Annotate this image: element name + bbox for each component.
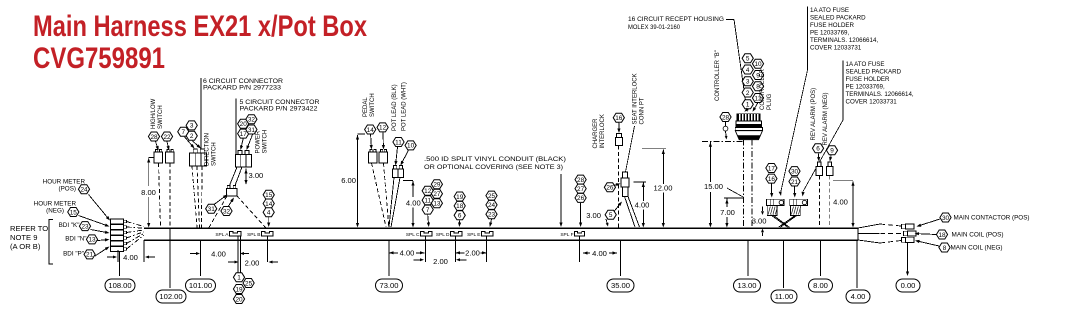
svg-text:HIGH/LOW: HIGH/LOW (151, 98, 157, 129)
svg-text:SPL F: SPL F (560, 232, 573, 238)
svg-text:BDI "N": BDI "N" (65, 236, 86, 243)
svg-text:SWITCH: SWITCH (263, 130, 269, 154)
svg-text:4: 4 (267, 210, 271, 217)
svg-text:4.00: 4.00 (851, 292, 866, 301)
svg-text:4.00: 4.00 (400, 248, 415, 257)
svg-text:PLUG: PLUG (767, 93, 773, 110)
svg-text:11: 11 (424, 198, 431, 205)
svg-text:.500 ID SPLIT VINYL CONDUIT (B: .500 ID SPLIT VINYL CONDUIT (BLACK) (424, 156, 566, 163)
svg-text:8: 8 (943, 245, 947, 252)
svg-text:14: 14 (367, 127, 375, 134)
svg-text:MAIN COIL (NEG): MAIN COIL (NEG) (951, 245, 1003, 252)
svg-text:73.00: 73.00 (379, 281, 398, 290)
svg-text:Main Harness EX21 x/Pot Box: Main Harness EX21 x/Pot Box (33, 10, 367, 43)
svg-text:23: 23 (488, 212, 496, 219)
svg-text:15: 15 (265, 192, 273, 199)
svg-text:CONTROLLER: CONTROLLER (760, 68, 766, 110)
svg-text:108.00: 108.00 (108, 281, 131, 290)
svg-text:TERMINALS. 12066614,: TERMINALS. 12066614, (846, 91, 914, 98)
svg-text:MOLEX 39-01-2160: MOLEX 39-01-2160 (628, 24, 680, 31)
svg-text:10: 10 (754, 61, 762, 68)
svg-text:19: 19 (235, 286, 243, 293)
svg-text:12.00: 12.00 (653, 183, 672, 192)
svg-text:27: 27 (577, 186, 585, 193)
svg-text:PE 12033769,: PE 12033769, (810, 30, 850, 37)
svg-text:7: 7 (182, 129, 186, 136)
svg-text:10: 10 (407, 143, 415, 150)
svg-text:22: 22 (163, 134, 171, 141)
svg-text:6: 6 (458, 213, 462, 220)
svg-text:SWITCH: SWITCH (158, 105, 164, 129)
svg-text:4.00: 4.00 (211, 250, 226, 259)
svg-text:18: 18 (456, 203, 464, 210)
svg-text:(NEG): (NEG) (46, 207, 64, 214)
svg-text:18: 18 (938, 232, 946, 239)
svg-text:NOTE 9: NOTE 9 (10, 233, 37, 242)
svg-text:POT LEAD (WHT): POT LEAD (WHT) (402, 82, 408, 131)
svg-text:COVER 12033731: COVER 12033731 (810, 45, 862, 52)
svg-text:5: 5 (746, 56, 750, 63)
svg-text:CONN PT: CONN PT (640, 97, 646, 124)
svg-text:FUSE HOLDER: FUSE HOLDER (846, 76, 891, 83)
svg-text:1: 1 (746, 102, 750, 109)
svg-text:SWITCH: SWITCH (370, 93, 376, 117)
svg-text:0.00: 0.00 (901, 281, 916, 290)
svg-text:BDI "P": BDI "P" (63, 251, 84, 258)
svg-text:13: 13 (88, 237, 96, 244)
svg-text:11.00: 11.00 (775, 292, 793, 301)
svg-text:2: 2 (746, 90, 750, 97)
svg-text:5: 5 (609, 212, 613, 219)
svg-text:25: 25 (245, 280, 253, 287)
svg-text:11: 11 (395, 139, 402, 146)
svg-text:CHARGER: CHARGER (593, 118, 599, 149)
svg-text:SPL B: SPL B (247, 232, 260, 238)
svg-text:7: 7 (426, 207, 430, 214)
svg-text:9: 9 (830, 148, 834, 155)
svg-text:1A ATO FUSE: 1A ATO FUSE (846, 61, 885, 68)
svg-text:1A ATO FUSE: 1A ATO FUSE (810, 7, 849, 14)
svg-text:PACKARD P/N 2973422: PACKARD P/N 2973422 (240, 106, 319, 113)
svg-text:(A OR B): (A OR B) (10, 242, 41, 251)
svg-text:17: 17 (768, 165, 776, 172)
svg-text:PE 12033769,: PE 12033769, (846, 84, 886, 91)
svg-text:SWITCH: SWITCH (212, 142, 218, 166)
svg-text:4: 4 (746, 67, 750, 74)
svg-text:12: 12 (379, 125, 387, 132)
svg-text:7.00: 7.00 (720, 208, 735, 217)
svg-text:8.00: 8.00 (813, 281, 828, 290)
svg-text:2: 2 (190, 133, 194, 140)
svg-text:15.00: 15.00 (704, 182, 723, 191)
svg-text:8.00: 8.00 (141, 188, 156, 197)
svg-text:23: 23 (81, 223, 89, 230)
svg-text:REFER TO: REFER TO (10, 224, 48, 233)
svg-text:OR OPTIONAL COVERING (SEE NOTE: OR OPTIONAL COVERING (SEE NOTE 3) (424, 164, 563, 171)
svg-text:30: 30 (942, 215, 950, 222)
svg-text:CVG759891: CVG759891 (33, 42, 165, 75)
svg-text:POT LEAD (BLK): POT LEAD (BLK) (392, 84, 398, 131)
svg-text:3.00: 3.00 (586, 211, 601, 220)
svg-text:24: 24 (488, 202, 496, 209)
svg-text:24: 24 (80, 187, 88, 194)
svg-text:31: 31 (208, 206, 216, 213)
svg-text:SPL C: SPL C (406, 232, 420, 238)
svg-text:HOUR METER: HOUR METER (43, 179, 86, 186)
svg-text:CONTROLLER "B": CONTROLLER "B" (715, 50, 721, 101)
svg-text:MAIN CONTACTOR (POS): MAIN CONTACTOR (POS) (954, 215, 1030, 222)
svg-text:12: 12 (424, 188, 432, 195)
svg-text:SEALED PACKARD: SEALED PACKARD (846, 69, 902, 76)
svg-text:16: 16 (615, 115, 623, 122)
svg-text:1: 1 (237, 275, 241, 282)
svg-text:6.00: 6.00 (341, 176, 356, 185)
svg-text:25: 25 (488, 193, 496, 200)
svg-text:SPL A: SPL A (215, 232, 229, 238)
svg-text:19: 19 (456, 194, 464, 201)
svg-text:14: 14 (265, 201, 273, 208)
svg-text:SPL D: SPL D (436, 232, 450, 238)
svg-text:BDI "K": BDI "K" (59, 222, 80, 229)
svg-text:PEDAL: PEDAL (363, 97, 369, 117)
svg-text:PACKARD P/N 2977233: PACKARD P/N 2977233 (203, 85, 282, 92)
svg-text:4.00: 4.00 (592, 249, 607, 258)
svg-text:FUSE HOLDER: FUSE HOLDER (810, 22, 855, 29)
svg-text:2.00: 2.00 (433, 257, 448, 266)
svg-text:REV ALARM (POS): REV ALARM (POS) (811, 88, 817, 141)
svg-text:32: 32 (223, 208, 231, 215)
svg-text:30: 30 (791, 168, 799, 175)
svg-text:(POS): (POS) (59, 186, 77, 193)
svg-text:35.00: 35.00 (611, 281, 630, 290)
svg-text:15: 15 (70, 209, 78, 216)
svg-text:32: 32 (248, 117, 256, 124)
svg-text:13: 13 (433, 201, 441, 208)
svg-text:26: 26 (577, 195, 585, 202)
svg-text:17: 17 (240, 131, 248, 138)
svg-text:20: 20 (240, 121, 248, 128)
svg-text:4.00: 4.00 (635, 201, 650, 210)
svg-text:POWER: POWER (256, 130, 262, 153)
svg-text:SPL E: SPL E (467, 232, 480, 238)
svg-text:101.00: 101.00 (189, 281, 212, 290)
svg-text:21: 21 (791, 179, 799, 186)
svg-text:13.00: 13.00 (737, 281, 756, 290)
svg-text:4.00: 4.00 (833, 198, 848, 207)
svg-text:20: 20 (235, 296, 243, 303)
svg-text:4.00: 4.00 (123, 253, 138, 262)
svg-text:6: 6 (816, 146, 820, 153)
svg-text:TERMINALS. 12066614,: TERMINALS. 12066614, (810, 37, 878, 44)
svg-text:2.00: 2.00 (245, 258, 260, 267)
svg-text:28: 28 (722, 114, 730, 121)
svg-text:DIRECTION: DIRECTION (205, 133, 211, 166)
svg-text:28: 28 (150, 134, 158, 141)
svg-text:26: 26 (606, 185, 614, 192)
svg-text:4.00: 4.00 (406, 198, 421, 207)
svg-text:3.00: 3.00 (752, 216, 767, 225)
svg-text:29: 29 (433, 182, 441, 189)
svg-text:16 CIRCUIT RECEPT HOUSING: 16 CIRCUIT RECEPT HOUSING (628, 16, 724, 23)
svg-text:27: 27 (433, 191, 441, 198)
svg-text:31: 31 (248, 127, 256, 134)
svg-text:3: 3 (190, 123, 194, 130)
svg-text:3.00: 3.00 (249, 171, 264, 180)
svg-text:MAIN COIL (POS): MAIN COIL (POS) (952, 232, 1004, 239)
svg-text:28: 28 (577, 177, 585, 184)
svg-text:3: 3 (746, 79, 750, 86)
svg-text:SEALED PACKARD: SEALED PACKARD (810, 15, 866, 22)
svg-text:COVER 12033731: COVER 12033731 (846, 99, 898, 106)
svg-text:REV ALARM (NEG): REV ALARM (NEG) (823, 92, 829, 145)
svg-text:16: 16 (768, 176, 776, 183)
svg-text:INTERLOCK: INTERLOCK (600, 114, 606, 148)
svg-text:2.00: 2.00 (465, 248, 480, 257)
svg-text:102.00: 102.00 (159, 292, 182, 301)
svg-text:21: 21 (86, 252, 94, 259)
svg-text:SEAT INTERLOCK: SEAT INTERLOCK (633, 73, 639, 124)
